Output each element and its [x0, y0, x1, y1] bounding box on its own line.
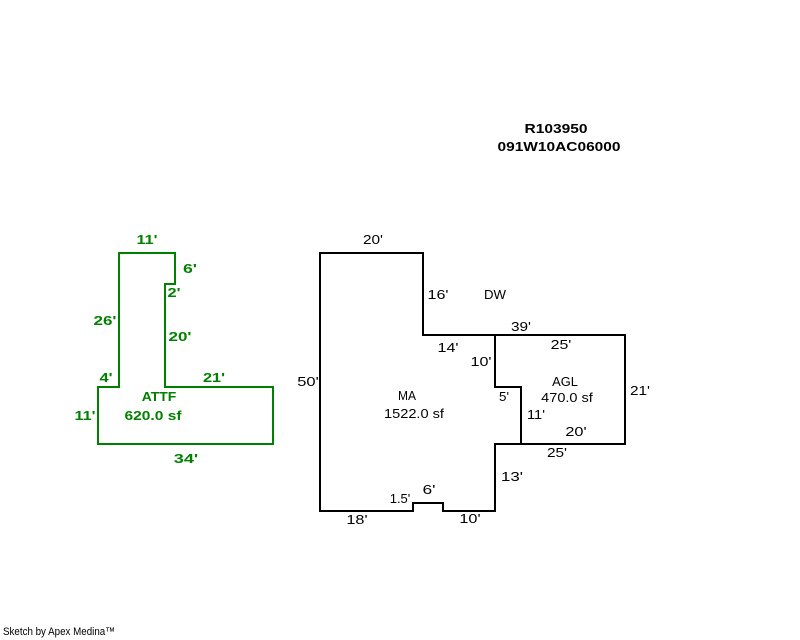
MA area outline (main dwelling footprint) [320, 253, 521, 511]
svg-text:18': 18' [346, 512, 367, 527]
svg-text:ATTF: ATTF [142, 389, 177, 404]
AGL area outline (attached garage footprint) [495, 335, 625, 444]
svg-text:MA: MA [398, 388, 416, 403]
svg-text:Sketch by Apex Medina™: Sketch by Apex Medina™ [3, 626, 115, 638]
svg-text:6': 6' [183, 261, 197, 276]
svg-text:11': 11' [75, 408, 96, 423]
svg-text:1522.0 sf: 1522.0 sf [384, 406, 444, 421]
svg-text:5': 5' [499, 389, 509, 404]
svg-text:20': 20' [565, 424, 586, 439]
ATTF area outline (green attached garage footprint) [98, 253, 273, 444]
svg-text:11': 11' [527, 407, 545, 422]
svg-text:21': 21' [630, 383, 650, 398]
svg-text:26': 26' [94, 313, 117, 328]
svg-text:470.0 sf: 470.0 sf [541, 390, 593, 405]
svg-text:14': 14' [438, 340, 459, 355]
svg-text:R103950: R103950 [525, 121, 588, 136]
svg-text:1.5': 1.5' [390, 491, 411, 506]
svg-text:13': 13' [501, 469, 523, 484]
svg-text:11': 11' [137, 232, 158, 247]
svg-text:16': 16' [428, 287, 449, 302]
svg-text:AGL: AGL [552, 374, 578, 389]
svg-text:10': 10' [471, 354, 492, 369]
svg-text:50': 50' [297, 374, 319, 389]
svg-text:6': 6' [423, 482, 436, 497]
svg-text:21': 21' [203, 370, 225, 385]
svg-text:25': 25' [547, 445, 567, 460]
svg-text:620.0 sf: 620.0 sf [125, 408, 183, 423]
svg-text:39': 39' [511, 319, 531, 334]
svg-text:091W10AC06000: 091W10AC06000 [498, 139, 621, 154]
svg-text:4': 4' [100, 370, 113, 385]
svg-text:10': 10' [459, 511, 480, 526]
svg-text:DW: DW [484, 287, 507, 302]
svg-text:20': 20' [169, 329, 192, 344]
svg-text:34': 34' [174, 451, 199, 466]
svg-text:20': 20' [363, 232, 383, 247]
svg-text:2': 2' [168, 285, 181, 300]
svg-text:25': 25' [551, 337, 572, 352]
